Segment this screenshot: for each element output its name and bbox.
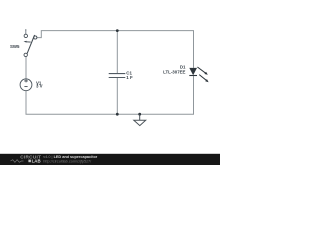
svg-text:SW5: SW5 — [10, 44, 20, 49]
svg-text:v4.0 | LED and supercapacitor: v4.0 | LED and supercapacitor — [43, 155, 97, 159]
svg-text:3 V: 3 V — [36, 83, 43, 88]
svg-text:LAB: LAB — [32, 159, 41, 164]
svg-text:1 F: 1 F — [126, 75, 133, 80]
svg-text:LTL-307EE: LTL-307EE — [163, 69, 185, 74]
svg-text:http://circuitlab.com/c/jfp5z7: http://circuitlab.com/c/jfp5z7/ — [43, 159, 92, 163]
